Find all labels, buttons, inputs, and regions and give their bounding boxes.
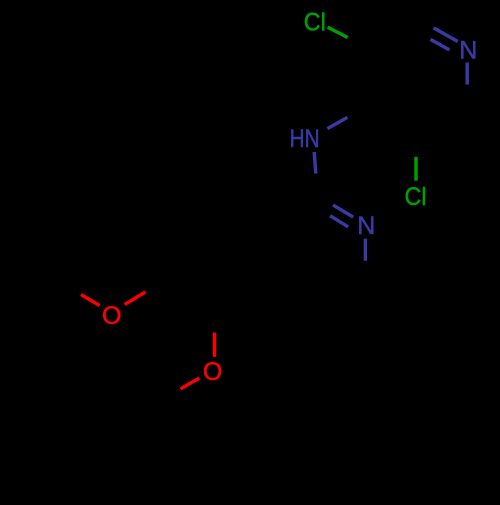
svg-text:HN: HN bbox=[290, 125, 320, 153]
svg-text:N: N bbox=[357, 212, 375, 240]
svg-text:O: O bbox=[203, 358, 222, 386]
svg-text:Cl: Cl bbox=[405, 183, 427, 211]
svg-text:O: O bbox=[102, 302, 121, 330]
svg-text:Cl: Cl bbox=[304, 9, 326, 37]
svg-text:N: N bbox=[459, 36, 477, 64]
